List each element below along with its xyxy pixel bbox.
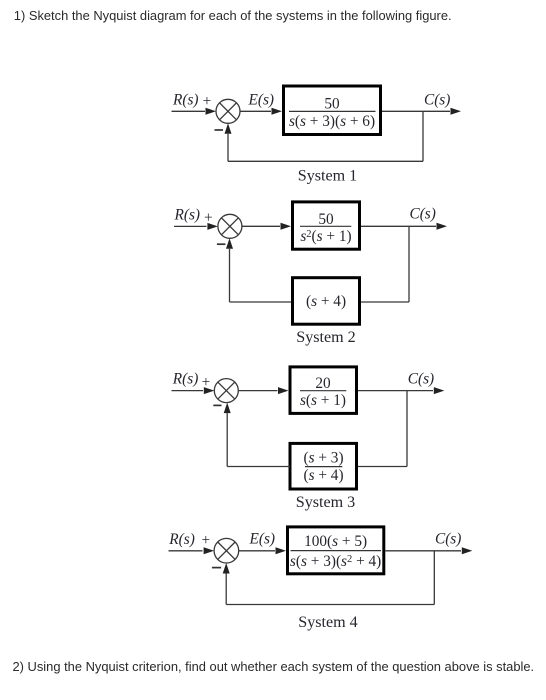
svg-text:C(s): C(s) [435, 531, 461, 548]
wire: summing junction U3 to block G3 [238, 387, 288, 394]
block G3: 20/s(s+1) [290, 367, 357, 414]
wire: feedback takeoff down S2 [408, 226, 410, 302]
svg-text:50: 50 [324, 95, 340, 112]
wire: summing junction U4 to block G4 [239, 547, 286, 554]
minus sign at summing junction U1 [215, 129, 224, 131]
wire: block G1 output to C(s) [382, 108, 461, 115]
summing junction U4 [214, 538, 239, 563]
block G2: 50/s^2(s+1) [293, 202, 360, 249]
svg-text:C(s): C(s) [424, 91, 450, 108]
wire: block G2 output to C(s) [361, 223, 447, 230]
block G1: 50/s(s+3)(s+6) [284, 86, 381, 135]
svg-text:s(s + 3)(s2 + 4): s(s + 3)(s2 + 4) [290, 553, 381, 570]
wire: feedback up into summing junction U1 [225, 123, 232, 161]
svg-text:R(s): R(s) [172, 371, 199, 388]
wire: input R(s) to summing junction U2 [174, 223, 218, 230]
wire: block G3 output to C(s) [358, 387, 444, 394]
summing junction U3 [214, 379, 238, 403]
wire: takeoff to feedback block H3 [358, 466, 407, 468]
minus sign at summing junction U2 [217, 243, 226, 245]
wire: block G4 output to C(s) [385, 547, 472, 554]
block H2: (s+4) [293, 278, 360, 325]
wire: input R(s) to summing junction U1 [172, 108, 217, 115]
wire: feedback up into summing junction U4 [223, 563, 230, 605]
wire: summing junction U2 to block G2 [242, 223, 291, 230]
wire: feedback takeoff down S3 [406, 391, 408, 467]
summing junction U2 [218, 214, 242, 238]
block G4: 100(s+5)/s(s+3)(s^2+4) [288, 527, 384, 574]
wire: feedback up into summing junction U2 [226, 238, 233, 302]
svg-text:System 3: System 3 [296, 494, 355, 511]
svg-text:50: 50 [318, 211, 334, 228]
svg-text:(s + 4): (s + 4) [306, 293, 346, 310]
svg-text:s(s + 3)(s + 6): s(s + 3)(s + 6) [289, 113, 375, 130]
wire: feedback takeoff down S4 [433, 551, 435, 605]
wire: feedback up into summing junction U3 [224, 403, 231, 467]
svg-text:R(s): R(s) [172, 92, 199, 109]
wire: takeoff to feedback block H2 [361, 301, 409, 303]
svg-text:(s + 4): (s + 4) [303, 467, 343, 484]
svg-text:System 4: System 4 [298, 614, 357, 631]
svg-text:2) Using the Nyquist criterion: 2) Using the Nyquist criterion, find out… [13, 659, 535, 674]
svg-text:s(s + 1): s(s + 1) [300, 392, 346, 409]
svg-text:+: + [201, 532, 210, 549]
svg-text:C(s): C(s) [408, 370, 434, 387]
svg-text:E(s): E(s) [249, 531, 276, 548]
svg-text:System 1: System 1 [298, 168, 357, 185]
block H3: (s+3)/(s+4) [290, 443, 357, 489]
svg-text:C(s): C(s) [410, 205, 436, 222]
svg-text:+: + [203, 93, 212, 110]
svg-text:1) Sketch the Nyquist diagram: 1) Sketch the Nyquist diagram for each o… [14, 8, 452, 23]
minus sign at summing junction U4 [212, 567, 221, 569]
wire: feedback block H3 to left run S3 [227, 466, 290, 468]
minus sign at summing junction U3 [213, 404, 221, 406]
wire: feedback bottom run S4 [226, 604, 434, 606]
svg-text:100(s + 5): 100(s + 5) [304, 533, 367, 550]
svg-text:System 2: System 2 [296, 329, 355, 346]
svg-text:R(s): R(s) [168, 531, 195, 548]
summing junction U1 [216, 99, 240, 123]
wire: input R(s) to summing junction U3 [172, 387, 215, 394]
svg-text:R(s): R(s) [174, 206, 201, 223]
wire: input R(s) to summing junction U4 [169, 547, 215, 554]
wire: feedback block H2 to left run S2 [230, 301, 292, 303]
wire: feedback takeoff down S1 [422, 111, 424, 161]
wire: summing junction U1 to block G1 [240, 108, 282, 115]
svg-text:(s + 3): (s + 3) [303, 449, 343, 466]
svg-text:20: 20 [315, 375, 331, 392]
wire: feedback bottom run S1 [228, 160, 423, 162]
svg-text:E(s): E(s) [248, 92, 275, 109]
